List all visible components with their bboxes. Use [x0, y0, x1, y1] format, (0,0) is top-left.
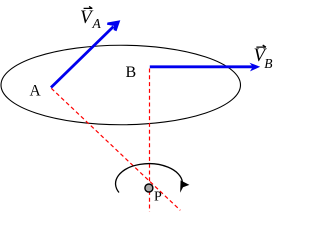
rotation arc around P	[116, 164, 183, 193]
vector V_B shaft	[150, 65, 254, 68]
svg-text:P: P	[154, 190, 162, 205]
svg-text:A: A	[92, 16, 102, 31]
dashed vertical line B to P extended	[149, 69, 151, 212]
point P dot	[145, 184, 153, 192]
vector hat over V_B	[256, 45, 266, 47]
vector V_A arrowhead	[107, 20, 120, 31]
svg-text:B: B	[126, 64, 137, 81]
rotation arc arrowhead	[180, 180, 189, 192]
disk (ellipse)	[1, 45, 241, 125]
vector V_A shaft	[51, 27, 114, 88]
svg-text:B: B	[264, 56, 272, 71]
svg-text:A: A	[30, 82, 42, 99]
vector hat over V_A	[84, 6, 93, 8]
vector V_B arrowhead	[250, 63, 261, 72]
dashed line A to P extended	[51, 88, 180, 210]
